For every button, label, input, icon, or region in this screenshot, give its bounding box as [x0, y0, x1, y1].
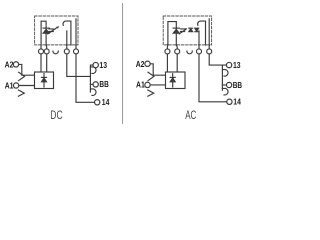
empty socket cup — [53, 51, 58, 54]
actuation arrow — [48, 28, 57, 34]
stub BB' — [222, 84, 226, 86]
input module diode — [43, 74, 45, 87]
divider between DC and AC diagrams — [122, 3, 124, 124]
hook BB — [90, 89, 96, 96]
contact lower fixed wire — [198, 31, 200, 45]
A1 chevron — [18, 90, 24, 96]
terminal A2 circle — [13, 62, 18, 67]
terminal A1' circle — [145, 82, 150, 87]
contact lower fixed wire — [66, 31, 68, 45]
svg-text:14: 14 — [102, 97, 110, 107]
svg-text:AC: AC — [185, 110, 196, 122]
svg-text:A1: A1 — [136, 80, 145, 90]
A1' chevron — [148, 90, 154, 96]
relay dashed outline — [35, 16, 78, 45]
terminal A1 circle — [13, 83, 18, 88]
svg-text:BB: BB — [99, 79, 108, 89]
coil branch wires — [168, 22, 176, 45]
contact moving blade — [198, 21, 206, 45]
terminal bus 13'/BB' — [222, 65, 226, 90]
contact fixed terminal — [75, 19, 77, 45]
terminal A1' wire — [150, 84, 165, 86]
svg-text:A2: A2 — [5, 60, 14, 70]
svg-text:14: 14 — [233, 97, 241, 107]
svg-text:13: 13 — [233, 60, 241, 70]
hook BB' — [222, 88, 228, 95]
socket pin 3 — [67, 45, 91, 76]
svg-text:DC: DC — [50, 110, 62, 122]
actuation arrow — [179, 30, 185, 34]
coil symbol (two bars) — [180, 29, 184, 32]
freewheel diode — [43, 27, 49, 29]
socket contact circles — [39, 49, 44, 54]
relay dashed outline — [163, 16, 211, 45]
contact fixed terminal — [208, 19, 210, 45]
terminal 13 circle — [93, 62, 98, 67]
terminal A1 wire — [19, 85, 35, 87]
coil branch wires — [41, 21, 46, 45]
terminal BB circle — [93, 82, 98, 87]
socket contact circles — [165, 49, 170, 54]
terminal 14' circle — [227, 99, 232, 104]
hook 13 — [90, 67, 96, 74]
terminal A2' circle — [145, 61, 150, 66]
terminal A2 wire — [19, 64, 35, 75]
socket pin 1' — [166, 45, 168, 72]
empty socket cup — [187, 51, 192, 54]
hook 13' — [222, 70, 228, 77]
input module box — [166, 72, 186, 89]
input module diode — [172, 74, 174, 87]
svg-text:A2: A2 — [136, 59, 145, 69]
socket pin 4 — [76, 45, 94, 102]
suppressor zener pair — [189, 29, 193, 32]
stub BB — [90, 83, 93, 85]
terminal 14 circle — [95, 100, 100, 105]
socket pin 3' — [199, 45, 227, 102]
socket pin 2' — [175, 45, 178, 72]
socket pin 2 — [45, 45, 48, 72]
svg-text:BB: BB — [233, 80, 242, 90]
terminal 13' circle — [226, 62, 231, 67]
coil symbol (two bars) — [49, 29, 53, 32]
terminal A2' wire — [150, 64, 165, 75]
terminal BB' circle — [226, 82, 231, 87]
svg-text:A1: A1 — [5, 80, 14, 90]
socket pin 1 — [40, 45, 42, 72]
A2' chevron — [148, 72, 154, 80]
svg-text:13: 13 — [99, 60, 107, 70]
terminal bus 13/BB — [90, 65, 93, 92]
input module box — [35, 72, 54, 89]
A2 chevron — [19, 72, 25, 80]
freewheel diode — [173, 27, 179, 29]
socket pin 4' — [209, 45, 222, 65]
contact moving blade — [63, 21, 71, 45]
